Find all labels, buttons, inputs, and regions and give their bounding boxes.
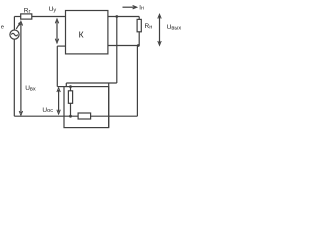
svg-text:Rн: Rн [145, 23, 153, 30]
EMF direction arrow [16, 24, 19, 29]
wire input return vertical [56, 46, 58, 87]
node R1 top junction [69, 85, 72, 88]
wire amplifier output top [108, 16, 139, 18]
wire Rn bottom lead [138, 32, 140, 46]
wire R1 bottom lead [70, 103, 72, 116]
wire amplifier lower input [57, 45, 65, 47]
In current arrow [123, 6, 137, 8]
wire R1 top lead [70, 87, 72, 91]
svg-text:Iн: Iн [139, 5, 144, 11]
Uvx measurement arrow [20, 24, 22, 114]
wire Rn top lead [138, 17, 140, 20]
Uy measurement arrow [56, 21, 58, 41]
node output bottom junction [137, 44, 140, 47]
wire to feedback box top [57, 86, 64, 88]
Uoc measurement arrow [58, 90, 60, 112]
svg-text:К: К [79, 29, 84, 39]
resistor Rg [21, 14, 32, 19]
source G1 (sine EMF source e) [10, 30, 19, 39]
wire feedback tap horizontal [66, 82, 117, 84]
svg-text:Uос: Uос [42, 107, 53, 114]
wire feedback tap vertical [116, 17, 118, 84]
svg-text:Rг: Rг [24, 8, 31, 15]
node output top junction [115, 15, 118, 18]
node R1 bottom junction [69, 115, 72, 118]
Uvyx measurement arrow [159, 16, 161, 44]
svg-text:e: e [1, 24, 4, 30]
wire top bend to Rg [14, 16, 20, 18]
wire bottom rail left [14, 115, 78, 117]
wire output return riser [136, 46, 138, 117]
wire bottom rail right [91, 115, 138, 117]
wire feedback tap stub into box [65, 83, 67, 87]
svg-text:Uy: Uy [49, 6, 57, 13]
svg-text:Uвых: Uвых [167, 24, 182, 31]
wire source top to bend [13, 17, 15, 31]
amplifier U1 (block K) [66, 11, 108, 54]
wire Rg to amplifier input [32, 16, 66, 18]
wire feedback box right edge drop [108, 83, 110, 128]
resistor R2 (horizontal, feedback divider) [78, 113, 91, 119]
wire bottom return left [13, 39, 15, 116]
wire amplifier output bottom [108, 45, 139, 47]
svg-text:Uвх: Uвх [25, 85, 36, 92]
resistor Rn (load) [137, 19, 141, 31]
feedback network B1 (box) [64, 87, 109, 128]
resistor R1 (vertical, feedback divider) [68, 91, 72, 104]
